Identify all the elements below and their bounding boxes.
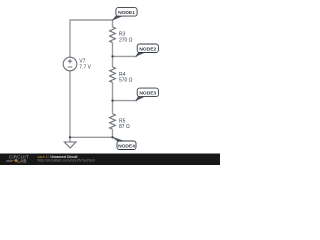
svg-text:270 Ω: 270 Ω <box>119 38 133 44</box>
svg-text:87 Ω: 87 Ω <box>119 124 130 130</box>
svg-text:http://circuitlab.com/c/pr957a: http://circuitlab.com/c/pr957ax2hcd <box>38 158 95 162</box>
svg-text:570 Ω: 570 Ω <box>119 78 133 84</box>
ground <box>64 142 76 148</box>
junction node D (ground) <box>69 136 71 138</box>
junction node B (R4/R5/NODE3) <box>111 99 113 101</box>
footer logo wire dashes <box>6 160 14 161</box>
resistor R3 <box>110 27 116 43</box>
footer bar <box>0 154 220 166</box>
wire source bottom lead <box>69 71 71 138</box>
svg-text:R3: R3 <box>119 31 126 37</box>
wire R5 bottom lead <box>112 129 114 137</box>
svg-text:NODE3: NODE3 <box>139 90 156 96</box>
node NODE1 flag pointer <box>112 16 122 20</box>
node NODE2 box <box>137 44 158 53</box>
footer logo orange mark <box>15 159 17 162</box>
svg-text:NODE4: NODE4 <box>118 143 135 149</box>
voltage source plus sign <box>68 59 72 67</box>
svg-text:NODE1: NODE1 <box>118 10 135 16</box>
wire stub to NODE2 <box>113 55 138 57</box>
wire R5 top lead <box>112 101 114 114</box>
resistor R5 <box>110 114 116 130</box>
wire R3 bottom lead <box>112 43 114 57</box>
wire top horizontal from source to resistor chain <box>70 20 113 57</box>
node NODE4 box <box>117 141 136 150</box>
junction node C (R5/wire/NODE4) <box>111 136 113 138</box>
svg-text:LAB: LAB <box>17 159 26 164</box>
wire bottom horizontal to ground <box>70 136 113 138</box>
node NODE2 flag pointer <box>136 53 145 57</box>
node NODE4 flag pointer <box>113 137 124 141</box>
ground stub <box>69 137 71 142</box>
wire R4 top lead <box>112 56 114 67</box>
junction node A (R3/R4/NODE2) <box>111 55 113 57</box>
node NODE3 flag pointer <box>136 97 145 101</box>
node NODE1 box <box>116 8 137 17</box>
wire stub to NODE3 <box>113 100 138 102</box>
node NODE3 box <box>137 88 158 97</box>
voltage source V7 circle <box>63 57 77 71</box>
voltage source minus sign <box>68 66 72 68</box>
resistor R4 <box>110 67 116 83</box>
svg-text:NODE2: NODE2 <box>139 46 156 52</box>
wire R3 top lead <box>112 20 114 27</box>
wire R4 bottom lead <box>112 83 114 101</box>
svg-text:7.7 V: 7.7 V <box>79 64 91 70</box>
